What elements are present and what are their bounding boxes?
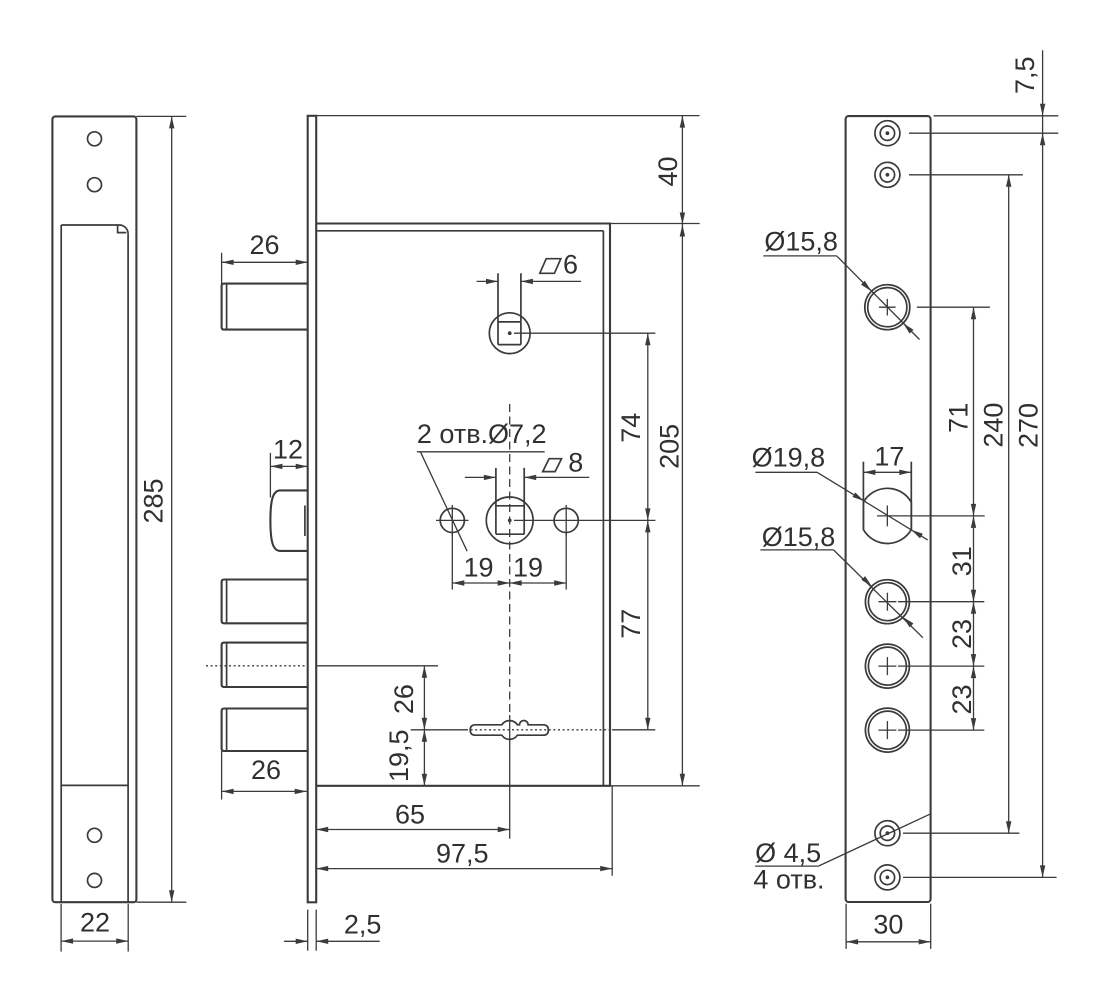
dimension 74/77 vertical line (647, 333, 649, 730)
square follower 6 top/bottom (498, 321, 521, 323)
label 15,8 bottom leader (834, 550, 923, 638)
strike bar screw hole top 1 (88, 132, 102, 146)
auxiliary latch (270, 490, 307, 551)
label 19,8 leader (817, 472, 928, 540)
svg-text:19,5: 19,5 (384, 729, 414, 782)
dimension 26 top extension (221, 253, 223, 288)
top latch bolt end face (226, 285, 228, 329)
svg-text:Ø15,8: Ø15,8 (762, 522, 836, 552)
deadbolt centerline solid extension (316, 665, 438, 667)
lock body inner right line (602, 231, 604, 786)
hole 15.8 A cross (878, 601, 896, 603)
screw hole bottom 2 (875, 865, 900, 890)
dimension 240 vertical line (1008, 175, 1010, 833)
label 15,8 top underline (763, 255, 836, 257)
label 4,5 leader (818, 814, 930, 866)
svg-text:4 отв.: 4 отв. (753, 864, 824, 894)
square follower 6 sides (497, 273, 499, 344)
svg-text:2 отв.Ø7,2: 2 отв.Ø7,2 (417, 419, 547, 449)
square follower 8 center dot (508, 519, 512, 523)
dimension 12 line (270, 465, 307, 467)
svg-text:12: 12 (273, 435, 303, 465)
screw hole top 2 (875, 162, 900, 187)
dimension 26/19.5 vertical line (423, 666, 425, 786)
strike bar outline (52, 116, 136, 902)
spindle hole cross (877, 515, 898, 517)
extension body bottom (610, 785, 700, 787)
dimension 285 extension top (136, 115, 186, 117)
svg-text:26: 26 (389, 684, 419, 714)
hole 7.2 right (554, 508, 578, 532)
leader spindle hole (897, 515, 985, 517)
leader hole A (898, 601, 984, 603)
svg-text:19: 19 (463, 553, 493, 583)
svg-text:Ø15,8: Ø15,8 (764, 226, 838, 256)
svg-text:205: 205 (654, 424, 684, 469)
vertical centerline solid (509, 715, 511, 839)
svg-text:6: 6 (563, 249, 578, 279)
hole 15.8 C (865, 708, 909, 752)
svg-text:17: 17 (874, 441, 904, 471)
square symbol 6 (540, 259, 561, 274)
dimension 30 line (846, 941, 931, 943)
strike bar inner flange left (60, 225, 62, 902)
dimension 19/19 line (452, 582, 566, 584)
top latch bolt (222, 284, 308, 330)
label 4,5 underline (755, 865, 818, 867)
keyhole centerline horizontal (411, 729, 466, 731)
svg-text:22: 22 (80, 908, 110, 938)
square follower 8 sides (495, 468, 497, 534)
dimension 40/205 vertical line (681, 116, 683, 786)
screw hole top 1 (875, 121, 900, 146)
spindle hole 19.8 with flats (863, 488, 911, 543)
svg-text:65: 65 (395, 799, 425, 829)
outer faceplate outline (846, 116, 931, 902)
extension body top (610, 223, 700, 225)
dimension 2,5 line (284, 940, 308, 942)
label 15,8 top leader (837, 256, 920, 340)
square follower 8 top/bottom (496, 505, 524, 507)
dimension 97,5 line (316, 868, 612, 870)
dimension 97,5 extension right (611, 786, 613, 876)
svg-text:77: 77 (616, 609, 646, 639)
deadbolt 3 end face (226, 709, 228, 750)
dimension 19/19 extension left (451, 533, 453, 590)
lock body outline (316, 224, 610, 786)
hole 7.2 left (440, 508, 464, 532)
leader hole B (898, 665, 984, 667)
dimension 8 line (465, 476, 496, 478)
svg-text:23: 23 (947, 619, 977, 649)
dimension 12 extension (269, 453, 271, 498)
svg-text:23: 23 (947, 684, 977, 714)
dimension 22 extension right (127, 904, 129, 952)
svg-text:285: 285 (139, 478, 169, 523)
strike bar screw hole bottom 2 (88, 873, 102, 887)
svg-text:40: 40 (653, 156, 683, 186)
strike bar inner flange right (127, 234, 129, 902)
strike bar cutout bottom edge (61, 784, 128, 786)
dimension 71/31/23/23 vertical line (973, 307, 975, 730)
faceplate edge-on (308, 116, 317, 903)
leader screw top 2 (909, 174, 1023, 176)
svg-text:97,5: 97,5 (436, 838, 489, 868)
leader screw bottom 2 (903, 876, 1057, 878)
svg-text:Ø 4,5: Ø 4,5 (755, 838, 821, 868)
svg-text:74: 74 (616, 413, 646, 443)
hole 7.2 left cross (436, 519, 469, 521)
hole 7.2 right cross (565, 505, 567, 536)
deadbolt 2 (222, 643, 308, 687)
label 15,8 bottom underline (760, 549, 833, 551)
dimension 285 extension bottom (136, 901, 186, 903)
label 19,8 underline (755, 471, 817, 473)
svg-text:270: 270 (1014, 403, 1044, 448)
cylinder hole 15.8 top cross (879, 306, 896, 308)
svg-text:26: 26 (251, 755, 281, 785)
follower 8 center leader (514, 519, 655, 521)
dimension 7,5/270 vertical line (1042, 50, 1044, 877)
hole 15.8 B (865, 644, 909, 688)
spindle hole flats extensions (17 dim) (862, 462, 864, 530)
keyhole (470, 721, 548, 740)
vertical centerline dashed (509, 404, 511, 715)
svg-text:240: 240 (979, 403, 1009, 448)
strike bar cutout folded tab (118, 226, 127, 233)
deadbolt 1 end face (226, 580, 228, 622)
deadbolt 2 end face (226, 644, 228, 687)
svg-text:31: 31 (947, 546, 977, 576)
dimension 26 top line (222, 261, 308, 263)
square follower 8 circle (486, 497, 533, 544)
svg-text:19: 19 (513, 553, 543, 583)
dimension 22 extension left (60, 904, 62, 952)
hole 15.8 A (865, 580, 909, 624)
svg-text:8: 8 (568, 448, 583, 478)
leader hole 15.8 top (917, 306, 990, 308)
svg-text:Ø19,8: Ø19,8 (752, 443, 826, 473)
cylinder hole 15.8 top (865, 285, 910, 330)
dimension 17 line (863, 471, 911, 473)
deadbolt 3 (222, 709, 308, 752)
svg-text:71: 71 (943, 403, 973, 433)
strike bar screw hole bottom 1 (88, 828, 102, 842)
svg-text:30: 30 (873, 909, 903, 939)
label 2 otv underline (417, 451, 545, 453)
lock body inner top line (316, 230, 603, 232)
deadbolt centerline dotted (206, 665, 308, 667)
dimension 65 line (316, 829, 510, 831)
hole 15.8 C cross (878, 729, 896, 731)
strike bar cutout top edge (61, 225, 128, 234)
extension plate top (934, 115, 1059, 117)
label 2 otv leader diagonal (420, 452, 467, 551)
dimension 26 bottom line (222, 790, 307, 792)
square follower 6 circle (489, 313, 530, 354)
deadbolt 1 (222, 580, 308, 624)
dimension 285 line (171, 116, 173, 902)
extension top 40 (317, 115, 700, 117)
svg-text:26: 26 (249, 230, 279, 260)
dimension 22 line (61, 940, 128, 942)
square symbol 8 (543, 459, 562, 472)
square follower 6 center dot (508, 331, 512, 335)
screw hole bottom 1 (875, 821, 900, 846)
dimension 26 bottom extension (221, 751, 223, 800)
hole 15.8 B cross (878, 665, 896, 667)
dimension 19/19 extension right (565, 533, 567, 590)
follower 6 center leader (514, 332, 655, 334)
dimension 2,5 extensions (307, 910, 309, 951)
dimension 30 extensions (845, 904, 847, 949)
leader screw top 1 (909, 132, 1058, 134)
auxiliary latch face line (304, 506, 306, 537)
svg-text:7,5: 7,5 (1010, 56, 1040, 94)
svg-text:2,5: 2,5 (344, 909, 382, 939)
strike bar screw hole top 2 (88, 178, 102, 192)
leader hole C (898, 729, 984, 731)
dimension 6 line (477, 280, 498, 282)
leader screw bottom 1 (903, 832, 1019, 834)
